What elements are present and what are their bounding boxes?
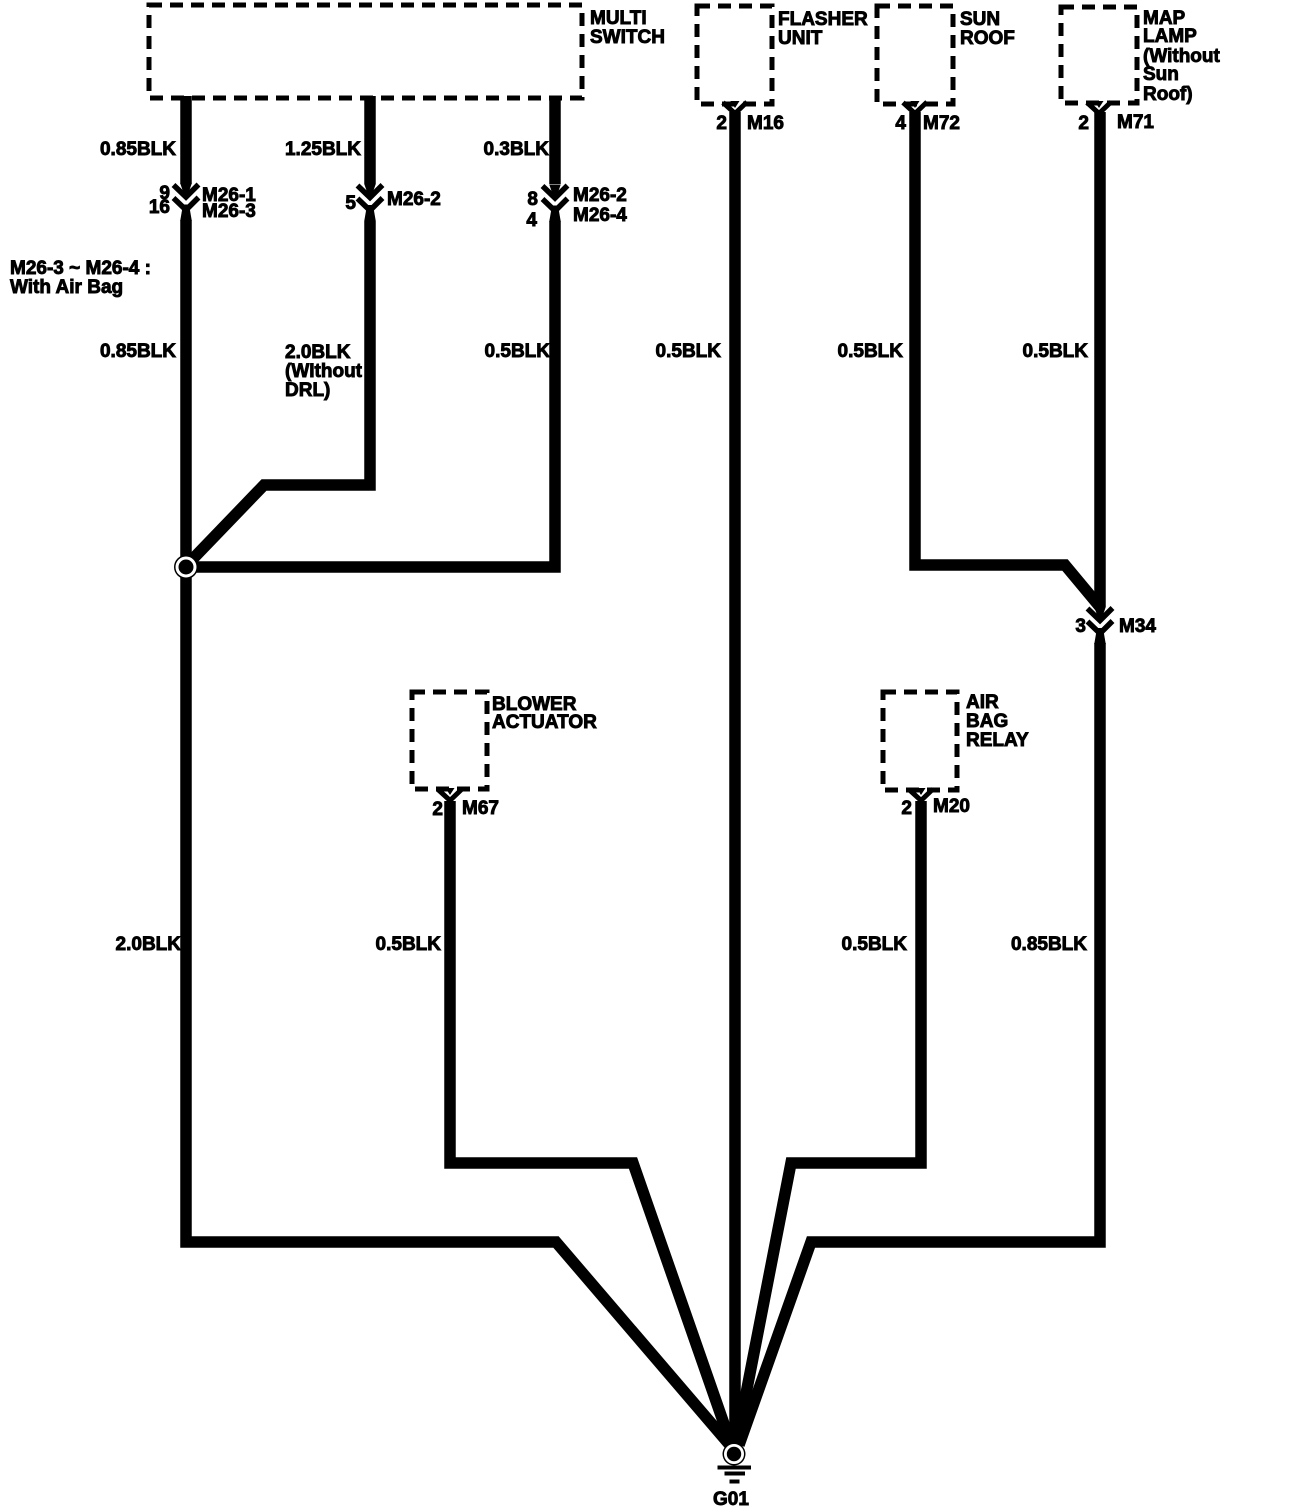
- svg-text:0.5BLK: 0.5BLK: [485, 341, 551, 362]
- svg-text:2: 2: [1078, 113, 1089, 134]
- svg-text:SWITCH: SWITCH: [590, 27, 665, 48]
- svg-text:8: 8: [527, 189, 538, 210]
- svg-text:0.5BLK: 0.5BLK: [842, 934, 908, 955]
- svg-text:LAMP: LAMP: [1143, 26, 1197, 47]
- svg-text:M34: M34: [1119, 616, 1156, 637]
- svg-text:M67: M67: [462, 798, 499, 819]
- svg-text:With Air Bag: With Air Bag: [10, 277, 123, 298]
- svg-text:2: 2: [432, 799, 443, 820]
- svg-text:0.5BLK: 0.5BLK: [1023, 341, 1089, 362]
- svg-text:M26-2: M26-2: [387, 189, 441, 210]
- svg-text:RELAY: RELAY: [966, 730, 1029, 751]
- svg-text:FLASHER: FLASHER: [778, 9, 868, 30]
- svg-text:M26-4: M26-4: [573, 205, 627, 226]
- svg-text:ACTUATOR: ACTUATOR: [492, 712, 597, 733]
- svg-text:2.0BLK: 2.0BLK: [116, 934, 182, 955]
- svg-text:UNIT: UNIT: [778, 28, 823, 49]
- svg-text:M26-2: M26-2: [573, 185, 627, 206]
- svg-text:0.5BLK: 0.5BLK: [376, 934, 442, 955]
- svg-text:4: 4: [895, 113, 906, 134]
- svg-text:M26-3: M26-3: [202, 201, 256, 222]
- svg-text:AIR: AIR: [966, 692, 999, 713]
- svg-text:0.85BLK: 0.85BLK: [1011, 934, 1087, 955]
- svg-text:3: 3: [1075, 616, 1086, 637]
- svg-text:0.85BLK: 0.85BLK: [100, 341, 176, 362]
- svg-text:M26-3 ~ M26-4 :: M26-3 ~ M26-4 :: [10, 258, 151, 279]
- svg-text:M71: M71: [1117, 112, 1154, 133]
- svg-text:G01: G01: [713, 1489, 749, 1510]
- svg-text:SUN: SUN: [960, 9, 1000, 30]
- svg-text:DRL): DRL): [285, 380, 330, 401]
- svg-text:2: 2: [901, 798, 912, 819]
- svg-text:M16: M16: [747, 113, 784, 134]
- svg-text:BAG: BAG: [966, 711, 1008, 732]
- svg-text:(WIthout: (WIthout: [285, 361, 363, 382]
- svg-text:0.5BLK: 0.5BLK: [838, 341, 904, 362]
- svg-text:5: 5: [345, 193, 356, 214]
- svg-text:0.5BLK: 0.5BLK: [656, 341, 722, 362]
- svg-text:ROOF: ROOF: [960, 28, 1015, 49]
- svg-text:1.25BLK: 1.25BLK: [285, 139, 361, 160]
- svg-text:MULTI: MULTI: [590, 8, 647, 29]
- svg-text:2: 2: [716, 113, 727, 134]
- svg-text:Sun: Sun: [1143, 64, 1179, 85]
- svg-text:2.0BLK: 2.0BLK: [285, 342, 351, 363]
- svg-text:M20: M20: [933, 796, 970, 817]
- svg-text:0.3BLK: 0.3BLK: [484, 139, 550, 160]
- svg-text:M72: M72: [923, 113, 960, 134]
- svg-text:16: 16: [149, 197, 170, 218]
- svg-text:Roof): Roof): [1143, 84, 1193, 105]
- svg-text:4: 4: [526, 210, 537, 231]
- svg-text:0.85BLK: 0.85BLK: [100, 139, 176, 160]
